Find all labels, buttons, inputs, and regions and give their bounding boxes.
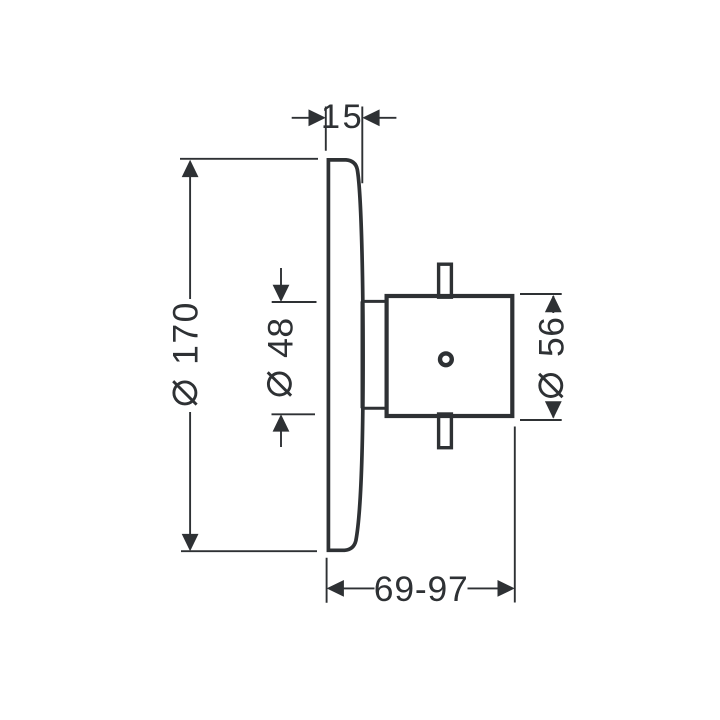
svg-text:170: 170	[165, 301, 205, 365]
svg-text:69-97: 69-97	[374, 569, 469, 609]
svg-text:48: 48	[260, 317, 300, 358]
svg-text:56: 56	[531, 316, 571, 357]
svg-text:15: 15	[321, 98, 364, 136]
